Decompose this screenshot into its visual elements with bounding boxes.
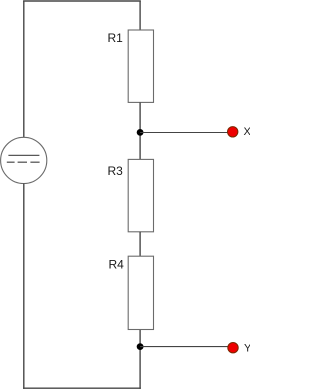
svg-text:R1: R1	[108, 31, 124, 45]
terminal Y	[228, 343, 252, 355]
wire	[23, 0, 141, 2]
terminal X	[228, 126, 252, 138]
svg-text:R3: R3	[108, 164, 124, 178]
svg-text:X: X	[244, 126, 251, 138]
wire	[23, 1, 25, 138]
wire	[139, 232, 141, 256]
node X junction	[137, 129, 144, 136]
wire	[139, 102, 141, 159]
svg-text:R4: R4	[109, 258, 125, 272]
svg-text:Y: Y	[244, 343, 250, 355]
wire	[140, 132, 228, 134]
wire	[139, 1, 141, 31]
voltage source	[1, 137, 47, 183]
resistor R3	[108, 159, 154, 231]
wire	[23, 387, 141, 389]
wire	[140, 346, 228, 348]
resistor R4	[109, 256, 154, 329]
node Y junction	[137, 343, 144, 350]
wire	[23, 184, 25, 389]
resistor R1	[108, 30, 154, 102]
wire	[139, 330, 141, 389]
